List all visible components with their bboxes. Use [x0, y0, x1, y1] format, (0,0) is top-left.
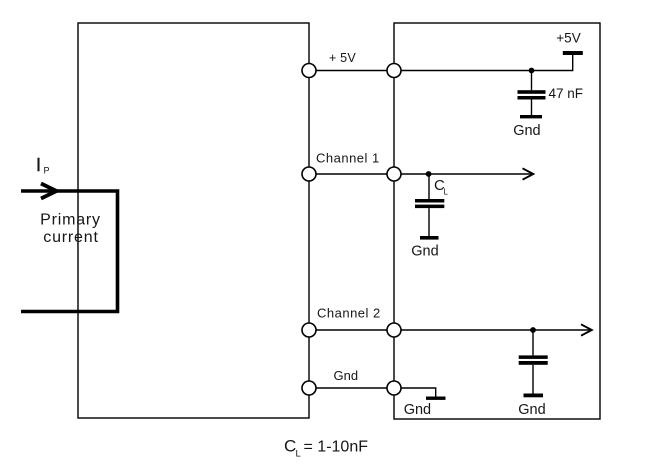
formula C_L = 1-10nF: [284, 437, 368, 460]
sensor box: [78, 23, 309, 418]
+5V supply symbol: [556, 31, 583, 56]
label Primary current: [40, 212, 101, 247]
svg-text:Primary: Primary: [40, 212, 101, 229]
svg-text:+ 5V: + 5V: [329, 51, 356, 65]
svg-text:Gnd: Gnd: [513, 123, 540, 139]
ground pin symbol: [404, 397, 446, 418]
svg-text:+5V: +5V: [556, 31, 580, 46]
wire Gnd stub: [394, 388, 436, 397]
svg-text:L: L: [296, 449, 301, 460]
svg-text:Channel 2: Channel 2: [317, 306, 381, 321]
svg-text:L: L: [444, 188, 449, 197]
capacitor C1 47 nF: [518, 71, 546, 116]
node Channel 2 junction: [530, 327, 536, 333]
wire +5V between boxes: [309, 70, 394, 72]
label I_P: [36, 155, 50, 176]
label C_L: [434, 177, 449, 197]
wire Channel 2 between boxes: [309, 329, 394, 331]
connector box: [394, 23, 600, 419]
capacitor C_L: [415, 174, 444, 236]
arrow Channel 2: [581, 324, 592, 335]
svg-text:Gnd: Gnd: [411, 244, 438, 260]
capacitor C2: [519, 330, 548, 394]
ground C1: [513, 115, 542, 139]
pin Channel 1 connector: [387, 167, 401, 181]
svg-text:= 1-10nF: = 1-10nF: [304, 439, 369, 456]
pin Gnd connector: [387, 381, 401, 395]
pin +5V sensor: [302, 64, 316, 78]
current arrow I_P: [41, 184, 57, 199]
pin Channel 1 sensor: [302, 167, 316, 181]
wire Channel 1 between boxes: [309, 173, 394, 175]
pin Gnd sensor: [302, 381, 316, 395]
svg-text:current: current: [43, 229, 98, 246]
wire Gnd between boxes: [309, 387, 394, 389]
pin +5V connector: [387, 64, 401, 78]
primary conductor: [21, 191, 118, 312]
svg-text:Gnd: Gnd: [404, 402, 431, 418]
node Channel 1 junction: [426, 171, 432, 177]
svg-text:I: I: [36, 155, 41, 175]
svg-text:Gnd: Gnd: [518, 402, 545, 418]
svg-text:Channel 1: Channel 1: [316, 151, 380, 166]
pin Channel 2 sensor: [302, 323, 316, 337]
svg-text:47 nF: 47 nF: [549, 86, 584, 101]
ground C2: [518, 394, 545, 419]
arrow Channel 1: [523, 168, 534, 179]
svg-text:C: C: [284, 437, 296, 456]
svg-text:Gnd: Gnd: [334, 368, 359, 383]
wire Channel 2 output: [394, 329, 590, 331]
ground C_L: [411, 236, 438, 260]
pin Channel 2 connector: [387, 323, 401, 337]
wire +5V net: [394, 55, 573, 71]
wire Channel 1 output: [394, 173, 531, 175]
node +5V junction: [529, 68, 535, 74]
svg-text:P: P: [44, 166, 50, 176]
